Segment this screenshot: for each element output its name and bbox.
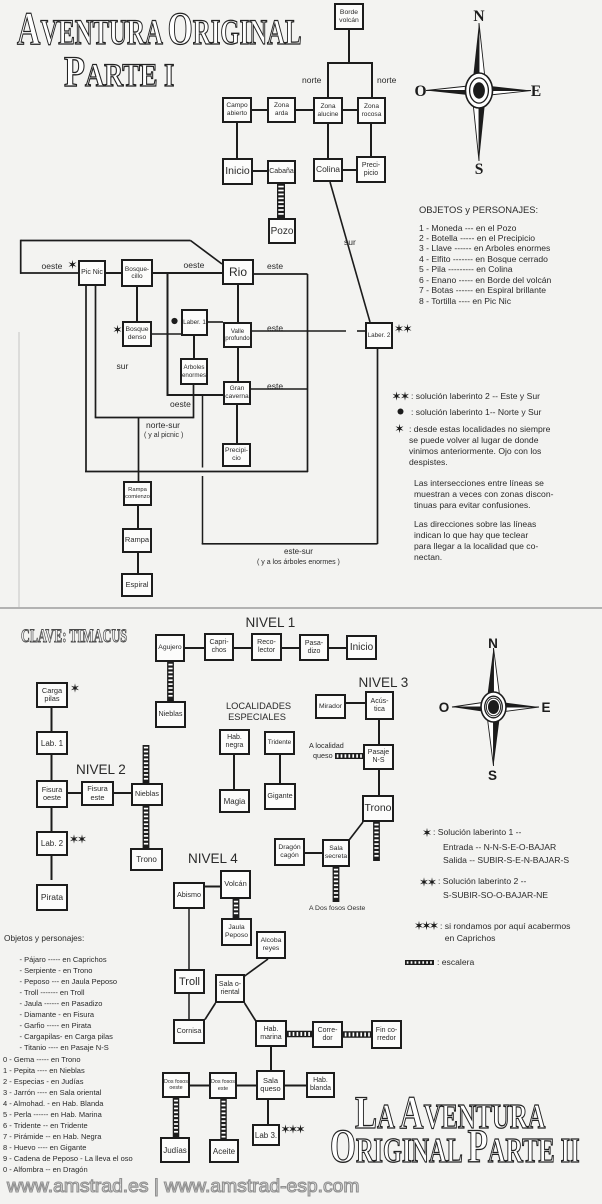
label header nivel 3 bbox=[359, 676, 409, 690]
wire dragon-sala secreta bbox=[305, 852, 322, 854]
wire valle-gran caverna bbox=[237, 348, 239, 381]
wire bosque denso-laber1 bbox=[152, 333, 181, 335]
box Espiral bbox=[121, 573, 153, 597]
wire campo-inicio bbox=[236, 123, 238, 158]
box Abismo bbox=[173, 882, 205, 909]
star lab3 b bbox=[289, 1124, 297, 1133]
box Troll bbox=[174, 969, 205, 994]
wire rampa chain 2 bbox=[137, 553, 139, 573]
wire rocosa-precipicio bbox=[370, 124, 372, 156]
wire volcan-abismo bbox=[205, 886, 220, 888]
svg-text:N: N bbox=[488, 636, 498, 651]
ladder sala secreta down bbox=[333, 867, 340, 902]
wire gran caverna-este bbox=[251, 388, 307, 390]
label label y a los arboles bbox=[257, 559, 340, 566]
scan edge left bbox=[18, 332, 20, 607]
star carga pilas bbox=[71, 683, 79, 692]
text label a localidad queso bbox=[309, 741, 344, 761]
text legend rondamos bbox=[440, 920, 570, 944]
box Fin corredor bbox=[371, 1020, 402, 1049]
wire pasadizo-inicio bbox=[329, 647, 346, 649]
label header nivel 4 bbox=[188, 852, 238, 866]
label label sur diag bbox=[344, 238, 356, 247]
box Sala queso bbox=[256, 1070, 285, 1100]
box Sala secreta bbox=[322, 839, 350, 867]
wire norte split horizontal bbox=[328, 62, 372, 64]
svg-text:S: S bbox=[475, 161, 484, 178]
box Dos fosos oeste bbox=[162, 1072, 190, 1098]
box Gran caverna bbox=[223, 381, 251, 405]
title La Aventura bbox=[355, 1086, 545, 1140]
wire este-sur horizontal bbox=[202, 543, 378, 545]
text objetos2 list numbered bbox=[3, 1054, 133, 1176]
text header localidades bbox=[226, 701, 288, 723]
wire laber1-valle bbox=[208, 321, 223, 323]
text legend laberinto 1 bbox=[411, 407, 541, 418]
wire inicio-cabana bbox=[253, 170, 267, 172]
box Caprichos bbox=[204, 633, 234, 661]
box Dos fosos este bbox=[209, 1072, 237, 1099]
ladder dosfosos oeste down bbox=[173, 1098, 180, 1137]
wire troll-cornisa bbox=[188, 994, 190, 1019]
ladder corredor-fin bbox=[343, 1031, 371, 1038]
wire top loop diagonal bbox=[191, 241, 223, 265]
box Fisura este bbox=[81, 781, 114, 806]
wire top loop horizontal bbox=[21, 240, 191, 242]
wire dosfosos oeste-este bbox=[190, 1085, 209, 1087]
wire zona alucine-rocosa bbox=[343, 109, 357, 111]
svg-text:O: O bbox=[439, 700, 450, 715]
box Pasadizo bbox=[299, 634, 329, 661]
box Magia bbox=[219, 789, 250, 813]
wire bosquecillo-junction bbox=[153, 272, 168, 274]
box Bosquecillo bbox=[121, 259, 153, 287]
ladder habmarina-corredor bbox=[287, 1031, 312, 1038]
wire oeste-gran caverna horizontal bbox=[167, 394, 223, 396]
wire sala queso-lab3 bbox=[267, 1100, 269, 1124]
wire borde-volcan stem bbox=[348, 30, 350, 63]
label label este caverna bbox=[267, 382, 283, 391]
box Pozo bbox=[268, 218, 296, 244]
box Hab blanda bbox=[306, 1072, 335, 1098]
box Pic Nic bbox=[78, 260, 106, 286]
label label norte right bbox=[377, 76, 396, 85]
box Jaula Peposo bbox=[221, 918, 252, 946]
label label oeste caverna bbox=[170, 400, 191, 409]
box Sala oriental bbox=[215, 974, 245, 1003]
box Zona alucine bbox=[313, 97, 343, 124]
box Hab marina bbox=[255, 1020, 287, 1047]
wire picnic-bosquecillo bbox=[106, 272, 121, 274]
wire hab marina-sala queso bbox=[270, 1047, 272, 1070]
wire mirador-acustica bbox=[346, 702, 365, 704]
ladder trono-down bbox=[373, 822, 380, 861]
label label a dos fosos oeste bbox=[309, 906, 365, 913]
box Aceite bbox=[209, 1139, 239, 1163]
box Carga pilas bbox=[36, 682, 68, 708]
box Lab 1 bbox=[36, 731, 68, 755]
wire gran caverna-precipicio bbox=[236, 405, 238, 443]
svg-text:O: O bbox=[414, 83, 426, 100]
title Original Parte II bbox=[330, 1119, 580, 1174]
ladder a-localidad-queso bbox=[335, 753, 363, 759]
label label norte-sur bbox=[146, 421, 180, 430]
box Fisura oeste bbox=[36, 780, 68, 808]
svg-text:N: N bbox=[473, 8, 484, 25]
star lab3 a bbox=[282, 1124, 290, 1133]
text legend solucion lab2 b bbox=[443, 890, 548, 901]
ladder icon escalera bbox=[405, 960, 434, 965]
wire zona arda-alucine bbox=[296, 109, 313, 111]
wire tridente-gigante bbox=[279, 755, 281, 783]
wire lab1-fisura bbox=[51, 755, 53, 780]
wire rio-este horizontal bbox=[254, 273, 308, 275]
box Pirata bbox=[36, 884, 68, 911]
label label este rio bbox=[267, 262, 283, 271]
label label este valle bbox=[267, 324, 283, 333]
wire picnic down right bbox=[95, 286, 97, 418]
box Precipicio arriba bbox=[356, 156, 386, 183]
wire top loop left vertical bbox=[20, 240, 22, 274]
text legend intersecciones bbox=[414, 478, 553, 511]
text legend direcciones bbox=[414, 519, 538, 563]
wire arboles down bbox=[193, 384, 195, 418]
box Zona rocosa bbox=[357, 97, 386, 124]
box Laber 2 bbox=[365, 322, 393, 349]
wire bosquecillo-bosque denso bbox=[136, 287, 138, 321]
box Agujero bbox=[155, 634, 185, 662]
wire trono-sala secreta diag bbox=[350, 822, 364, 840]
compass rose 1 bbox=[414, 8, 541, 178]
label header nivel 2 bbox=[76, 763, 126, 777]
box Nieblas upper bbox=[155, 701, 186, 728]
box Trono left bbox=[130, 848, 163, 871]
box Lab 3 bbox=[252, 1124, 280, 1146]
wire rampa comienzo up bbox=[138, 418, 140, 482]
wire valle-laber2 este bbox=[252, 330, 365, 332]
text legend laberinto 2 bbox=[411, 391, 540, 402]
wire oeste-picnic horizontal bbox=[20, 272, 78, 274]
wire laber2 down bbox=[377, 349, 379, 544]
wire oeste vertical x167 bbox=[167, 272, 169, 396]
ladder agujero-nieblas bbox=[167, 662, 174, 701]
star sol3 a bbox=[415, 921, 423, 930]
text legend desde estas bbox=[409, 424, 550, 468]
svg-text:E: E bbox=[531, 83, 541, 100]
wire abismo-troll bbox=[188, 909, 190, 969]
star legend2 b bbox=[401, 391, 409, 400]
ladder nieblas free bbox=[143, 745, 150, 783]
wire fisura oeste-este bbox=[68, 792, 81, 794]
compass rose 2 bbox=[439, 636, 551, 783]
box Arboles enormes bbox=[180, 358, 208, 385]
box Nieblas lower bbox=[131, 783, 163, 806]
label label este-sur bbox=[284, 548, 313, 556]
wire sala oriental-hab marina diag bbox=[245, 1003, 256, 1021]
star sol1 bbox=[423, 828, 431, 837]
wire colina-precipicio bbox=[343, 169, 356, 171]
separator scan edge bbox=[0, 607, 602, 609]
wire pasaje-trono bbox=[378, 770, 380, 795]
star legend asterisk bbox=[396, 424, 404, 433]
text objetos2 list dashes bbox=[20, 954, 118, 1053]
wire este loop vertical bbox=[307, 274, 309, 472]
box Inicio 2 bbox=[346, 635, 377, 660]
wire caprichos-recolector bbox=[234, 647, 251, 649]
wire hab negra-magia bbox=[233, 755, 235, 789]
wire alcoba-sala oriental diag bbox=[244, 959, 268, 977]
star sol2 b bbox=[428, 877, 436, 886]
text legend solucion lab1 b bbox=[443, 841, 569, 869]
box Volcan bbox=[220, 870, 251, 899]
box Inicio 1 bbox=[222, 158, 253, 185]
star laber2 a bbox=[395, 324, 403, 333]
wire sur diagonal colina-laber2 bbox=[330, 182, 370, 322]
box Pasaje N-S bbox=[363, 744, 394, 770]
svg-text:E: E bbox=[541, 700, 550, 715]
svg-text:S: S bbox=[488, 768, 497, 783]
label header nivel 1 bbox=[246, 616, 296, 630]
box Rio bbox=[222, 259, 254, 285]
bullet laberinto 1 bbox=[171, 318, 177, 324]
wire norte left vertical bbox=[327, 62, 329, 97]
title Aventura Original bbox=[17, 2, 302, 56]
ladder cabana-pozo bbox=[277, 184, 285, 218]
title Clave Timacus bbox=[21, 626, 127, 648]
box Tridente bbox=[264, 731, 295, 755]
text objetos title bbox=[419, 204, 538, 215]
wire rampa chain 1 bbox=[137, 506, 139, 528]
star bosque denso bbox=[114, 325, 122, 334]
box Borde volcan bbox=[334, 3, 364, 30]
wire rio-oeste horizontal bbox=[167, 272, 222, 274]
wire fisura-lab2 bbox=[51, 808, 53, 831]
wire acustica-pasaje bbox=[378, 720, 380, 744]
box Rampa bbox=[122, 528, 152, 553]
box Recolector bbox=[251, 633, 282, 661]
box Precipicio abajo bbox=[222, 443, 251, 467]
box Corredor bbox=[312, 1021, 343, 1048]
box Colina bbox=[313, 158, 343, 182]
label label oeste far bbox=[42, 262, 63, 271]
wire recolector-pasadizo bbox=[282, 647, 299, 649]
ladder volcan-jaula bbox=[233, 899, 240, 918]
star sol2 a bbox=[420, 877, 428, 886]
box Trono right bbox=[362, 795, 394, 822]
banner amstrad urls bbox=[7, 1176, 359, 1197]
wire lab2-pirata bbox=[51, 856, 53, 880]
box Gigante bbox=[264, 783, 296, 810]
text legend solucion lab2 bbox=[438, 876, 526, 887]
wire bottom loop horizontal bbox=[85, 471, 308, 473]
text legend solucion lab1 bbox=[433, 827, 521, 838]
box Bosque denso bbox=[122, 321, 152, 347]
wire agujero-caprichos bbox=[185, 647, 204, 649]
box Judias bbox=[160, 1137, 190, 1163]
box Acustica bbox=[365, 691, 394, 720]
box Cornisa bbox=[173, 1019, 205, 1044]
box Dragon cagon bbox=[274, 838, 305, 866]
wire carga-lab1 bbox=[51, 708, 53, 731]
wire alucine-colina bbox=[327, 124, 329, 158]
box Valle profundo bbox=[223, 322, 252, 348]
wire laber1-arboles bbox=[193, 336, 195, 358]
box Lab 2 bbox=[36, 831, 68, 856]
box Rampa comienzo bbox=[123, 481, 152, 506]
wire campo-zona arda bbox=[252, 109, 267, 111]
star pic nic bbox=[69, 260, 77, 269]
star legend2 a bbox=[393, 391, 401, 400]
wire cornisa-sala oriental diag bbox=[205, 1003, 216, 1020]
box Mirador bbox=[315, 694, 346, 719]
box Laber 1 bbox=[181, 309, 208, 336]
title Parte I bbox=[64, 48, 174, 97]
bullet legend1 bbox=[398, 409, 404, 415]
text objetos list bbox=[419, 223, 551, 307]
star lab3 c bbox=[297, 1124, 305, 1133]
star laber2 b bbox=[404, 324, 412, 333]
wire norte right vertical bbox=[371, 62, 373, 97]
box Alcoba reyes bbox=[256, 931, 286, 959]
box Cabana bbox=[267, 160, 296, 184]
ladder nieblas-trono bbox=[143, 806, 150, 848]
star sol3 b bbox=[423, 921, 431, 930]
wire rio-valle bbox=[237, 285, 239, 322]
wire picnic down left bbox=[85, 286, 87, 472]
wire fisura este-nieblas bbox=[114, 792, 131, 794]
wire este-sur vertical lower bbox=[202, 476, 204, 544]
wire dosfosos este-sala queso bbox=[237, 1085, 256, 1087]
box Zona arda bbox=[267, 97, 296, 123]
box Hab negra bbox=[219, 729, 250, 755]
wire norte-sur horizontal bbox=[95, 417, 194, 419]
star sol3 c bbox=[430, 921, 438, 930]
wire este-sur vertical upper bbox=[202, 396, 204, 468]
star lab2 a bbox=[70, 834, 78, 843]
text objetos2 title bbox=[4, 933, 84, 944]
label label sur bosque bbox=[117, 362, 129, 371]
label label y al picnic bbox=[144, 432, 183, 439]
label label norte left bbox=[302, 76, 321, 85]
text legend escalera bbox=[437, 957, 474, 968]
wire sala queso-hab blanda bbox=[285, 1085, 306, 1087]
star lab2 b bbox=[78, 834, 86, 843]
ladder dosfosos este down bbox=[220, 1099, 227, 1139]
label label oeste rio bbox=[184, 261, 205, 270]
box Campo abierto bbox=[222, 97, 252, 123]
